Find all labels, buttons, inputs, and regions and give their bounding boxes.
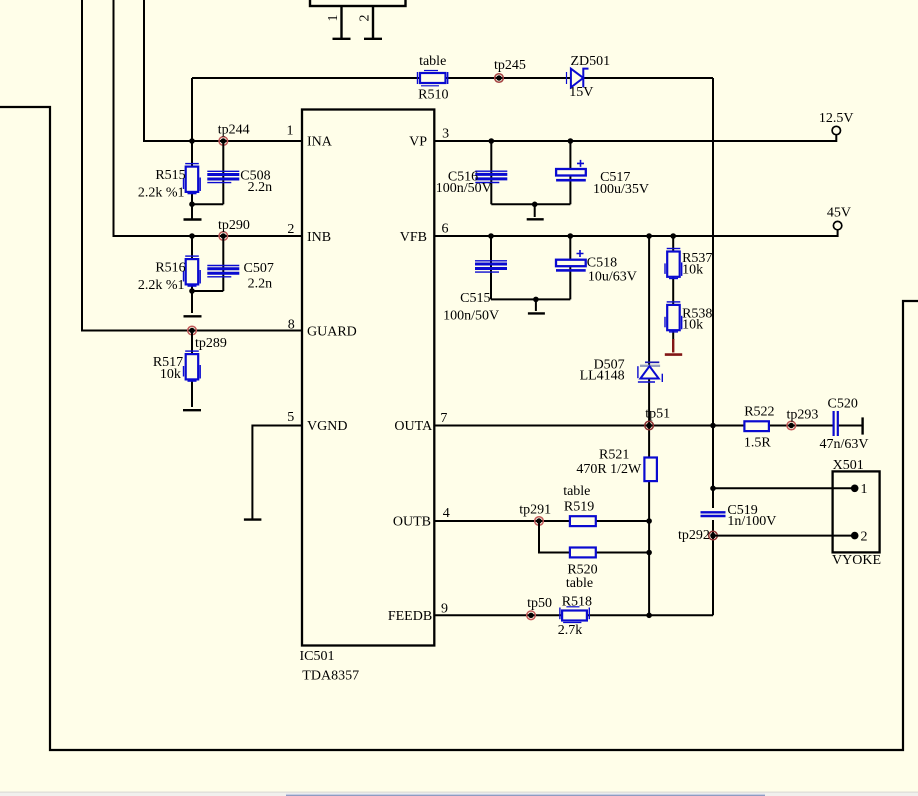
ground bar below C515/C518 <box>528 312 545 314</box>
wire right bus x=713 OUTA to FEEDB <box>712 426 714 616</box>
resistor R510 <box>418 54 449 103</box>
wire FEEDB rail y=615.3 <box>434 614 713 616</box>
wire C520 to end bar <box>839 425 863 427</box>
resistor R516 2.2k <box>138 256 200 293</box>
svg-text:10u/63V: 10u/63V <box>588 269 637 284</box>
pin 1 of top connector <box>326 6 350 39</box>
pin 6 VFB label <box>400 222 449 245</box>
svg-text:C520: C520 <box>828 396 858 411</box>
svg-text:OUTA: OUTA <box>394 419 433 434</box>
wire vertical right bus x=713 from top rail to OUTA <box>712 78 714 426</box>
svg-text:tp292: tp292 <box>678 528 710 543</box>
svg-text:R519: R519 <box>564 499 594 514</box>
wire maroon below R538 <box>672 339 674 353</box>
svg-text:12.5V: 12.5V <box>819 111 854 126</box>
test point tp50 <box>527 596 552 620</box>
svg-text:VFB: VFB <box>400 230 427 245</box>
svg-text:R515: R515 <box>155 168 185 183</box>
svg-text:R521: R521 <box>599 447 629 462</box>
svg-text:X501: X501 <box>833 458 864 473</box>
resistor R515 2.2k <box>138 164 200 201</box>
wire yoke pin1 <box>713 487 855 489</box>
pin 3 VP label <box>409 127 449 150</box>
svg-text:VGND: VGND <box>307 419 347 434</box>
wire R516/C507 branch <box>192 236 223 313</box>
wire C515/C518 branch to ground <box>491 236 570 311</box>
svg-text:4: 4 <box>443 506 450 521</box>
svg-text:LL4148: LL4148 <box>580 369 625 384</box>
svg-text:3: 3 <box>442 127 449 142</box>
svg-text:8: 8 <box>288 317 295 332</box>
resistor R517 10k <box>153 351 200 382</box>
svg-text:47n/63V: 47n/63V <box>820 437 869 452</box>
node junction C519 top / yoke pin1 <box>710 486 716 492</box>
connector J-top box <box>310 0 406 6</box>
node junction VP/C516 <box>489 138 495 144</box>
wire OUTA rail y=425.5 <box>434 425 713 427</box>
wire vertical GUARD feed x=82 <box>82 0 302 331</box>
svg-text:tp291: tp291 <box>519 502 551 517</box>
node junction OUTB/R521 <box>646 518 652 524</box>
capacitor C515 100n/50V <box>443 261 507 324</box>
node junction below R516 <box>189 288 195 294</box>
resistor R537 10k <box>665 249 712 279</box>
svg-text:GUARD: GUARD <box>307 324 357 339</box>
node junction below C515/C518 <box>533 297 539 303</box>
svg-text:2: 2 <box>861 529 868 544</box>
resistor R522 1.5R <box>744 405 775 451</box>
svg-text:6: 6 <box>442 222 449 237</box>
pin 5 VGND label <box>287 410 347 434</box>
svg-text:INB: INB <box>307 230 331 245</box>
wire net R510/ZD501 top rail y=78 <box>192 77 713 79</box>
svg-text:ZD501: ZD501 <box>570 54 610 69</box>
svg-text:tp51: tp51 <box>645 406 670 421</box>
svg-text:tp293: tp293 <box>786 408 818 423</box>
capacitor C507 2.2n <box>207 261 274 292</box>
wire OUTB rail y=521 <box>434 520 649 522</box>
node junction VFB/R537 <box>670 233 676 239</box>
svg-text:15V: 15V <box>569 85 593 100</box>
node junction below R515 <box>189 201 195 207</box>
node junction below C516/C517 <box>532 202 538 208</box>
ground bar VGND <box>244 518 262 520</box>
pin 1 of X501 <box>851 482 868 497</box>
test point tp289 <box>188 326 227 351</box>
ground bar below C516/C517 <box>527 218 544 220</box>
wire vertical from R510 rail down to INA node <box>191 78 193 141</box>
svg-text:45V: 45V <box>827 206 851 221</box>
svg-text:100u/35V: 100u/35V <box>593 182 649 197</box>
svg-text:tp245: tp245 <box>494 58 526 73</box>
pin 2 of X501 <box>851 529 868 544</box>
svg-text:10k: 10k <box>682 318 703 333</box>
test point tp293 <box>786 408 818 430</box>
resistor R538 10k <box>665 302 712 333</box>
svg-text:table: table <box>419 54 446 69</box>
svg-text:tp290: tp290 <box>218 218 250 233</box>
svg-text:IC501: IC501 <box>300 649 335 664</box>
resistor R521 470R 1/2W <box>576 447 657 481</box>
svg-text:tp289: tp289 <box>195 336 227 351</box>
test point tp291 <box>519 502 551 525</box>
pin 4 OUTB label <box>393 506 450 530</box>
svg-text:TDA8357: TDA8357 <box>302 669 359 684</box>
svg-text:1n/100V: 1n/100V <box>727 514 776 529</box>
svg-text:R510: R510 <box>418 88 448 103</box>
svg-text:table: table <box>563 484 590 499</box>
svg-text:1.5R: 1.5R <box>744 435 772 450</box>
svg-text:R522: R522 <box>744 405 774 420</box>
ground bar maroon below R538 <box>665 353 682 356</box>
svg-text:100n/50V: 100n/50V <box>436 181 492 196</box>
wire VGND pin 5 to ground <box>252 426 302 520</box>
test point tp244 <box>218 123 250 146</box>
capacitor C508 2.2n <box>207 169 272 196</box>
svg-text:R516: R516 <box>155 261 185 276</box>
zener diode ZD501 15V <box>567 54 611 100</box>
node junction VFB/D507 <box>646 233 652 239</box>
pin 1 INA label <box>287 124 333 150</box>
svg-text:2: 2 <box>358 15 373 22</box>
op-amp IC box IC501 TDA8357 <box>300 110 435 684</box>
resistor R519 table <box>563 484 596 526</box>
svg-text:VP: VP <box>409 135 427 150</box>
test point tp245 <box>494 58 526 82</box>
node junction INB x=192 <box>189 233 195 239</box>
svg-text:C507: C507 <box>244 261 274 276</box>
svg-text:2.2k %1: 2.2k %1 <box>138 186 185 201</box>
svg-text:1: 1 <box>861 482 868 497</box>
terminal 12.5V <box>819 111 854 135</box>
svg-text:470R 1/2W: 470R 1/2W <box>576 462 642 477</box>
test point tp51 on OUTA <box>645 406 670 429</box>
svg-text:C515: C515 <box>460 291 490 306</box>
svg-text:OUTB: OUTB <box>393 515 431 530</box>
capacitor C518 10u/63V polar <box>556 250 637 284</box>
svg-text:2.7k: 2.7k <box>558 623 583 638</box>
connector X501 VYOKE box <box>832 458 881 568</box>
ground bar below R516 <box>184 315 202 317</box>
capacitor C520 47n/63V <box>820 396 869 452</box>
svg-text:VYOKE: VYOKE <box>832 553 881 568</box>
svg-text:7: 7 <box>440 411 447 426</box>
svg-text:10k: 10k <box>682 262 703 277</box>
diode D507 LL4148 <box>580 358 663 384</box>
svg-text:2.2n: 2.2n <box>248 180 273 195</box>
capacitor C517 100u/35V polar <box>556 160 649 197</box>
capacitor C516 100n/50V <box>436 170 508 197</box>
pin 9 FEEDB label <box>388 602 448 624</box>
bottom window strip <box>0 792 918 796</box>
svg-text:tp50: tp50 <box>527 596 552 611</box>
svg-text:2.2k %1: 2.2k %1 <box>138 278 185 293</box>
svg-text:2.2n: 2.2n <box>248 277 273 292</box>
capacitor C519 1n/100V <box>701 503 777 529</box>
resistor R518 2.7k <box>558 595 592 638</box>
test point tp292 <box>678 528 717 543</box>
node junction VFB/C515 <box>488 233 494 239</box>
pin 2 of top connector <box>358 6 382 39</box>
svg-text:2: 2 <box>287 222 294 237</box>
test point tp290 <box>218 218 250 241</box>
svg-text:FEEDB: FEEDB <box>388 609 432 624</box>
wire R537/R538 chain <box>672 236 674 340</box>
pin 8 GUARD label <box>288 317 357 339</box>
svg-text:R518: R518 <box>562 595 592 610</box>
svg-text:5: 5 <box>287 410 294 425</box>
node junction R520/R521 <box>646 550 652 556</box>
terminal 45V <box>827 206 851 230</box>
wire vertical INB feed x=113.5 <box>114 0 303 236</box>
svg-text:tp244: tp244 <box>218 123 250 138</box>
wire R515/C508 branch <box>192 141 223 219</box>
node junction OUTA/right bus <box>710 423 716 429</box>
wire OUTA to yoke R522 segment <box>713 425 833 427</box>
svg-text:1: 1 <box>287 124 294 139</box>
wire VFB rail to 45V terminal <box>434 230 838 236</box>
node junction VFB/C518 <box>568 233 574 239</box>
ground bar below R515 <box>184 218 202 220</box>
wire yoke pin2 <box>713 535 855 537</box>
node junction VP/C517 <box>568 138 574 144</box>
svg-text:10k: 10k <box>160 367 181 382</box>
wire vertical INA feed x=144 <box>144 0 302 141</box>
svg-text:table: table <box>566 576 593 591</box>
resistor R520 table <box>566 548 598 591</box>
pin 2 INB label <box>287 222 331 245</box>
wire R517 branch <box>191 331 193 408</box>
svg-text:1: 1 <box>326 15 341 22</box>
wire R520 lower branch <box>539 521 649 553</box>
pin 7 OUTA label <box>394 411 447 434</box>
ground bar below R517 <box>183 409 201 411</box>
svg-text:INA: INA <box>307 135 333 150</box>
svg-text:100n/50V: 100n/50V <box>443 308 499 323</box>
svg-text:C518: C518 <box>587 256 617 271</box>
node junction FEEDB/R521 bus <box>646 613 652 619</box>
wire VP rail to 12.5V terminal <box>434 135 836 141</box>
wire C516/C517 branch to ground <box>491 141 570 217</box>
ground bar right of C520 <box>861 417 863 434</box>
node junction INA x=192 <box>189 138 195 144</box>
wire vertical D507 bus x=649.1 from VFB to FEEDB <box>648 236 650 615</box>
